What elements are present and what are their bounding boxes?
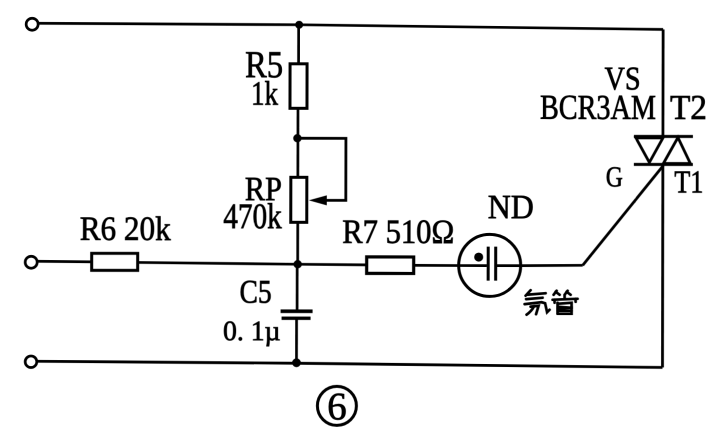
label neon tube chinese — [525, 290, 578, 315]
triac bottom bar — [634, 163, 693, 166]
wire R5 top lead — [297, 25, 300, 64]
capacitor C5 bottom plate — [282, 317, 311, 320]
resistor R5 — [290, 64, 307, 109]
node bottom junction — [292, 358, 301, 367]
svg-text:BCR3AM: BCR3AM — [540, 88, 656, 127]
wire RP feedback loop — [297, 138, 346, 200]
wire R7 to ND — [414, 264, 460, 267]
svg-text:ND: ND — [488, 189, 534, 226]
wire right vertical bottom (T1 lead) — [661, 164, 664, 367]
figure number circled 6 — [317, 386, 356, 425]
wire bottom — [37, 361, 662, 367]
ND dot electrode — [474, 253, 483, 262]
char guan — [554, 291, 557, 295]
svg-text:R6 20k: R6 20k — [80, 211, 171, 248]
svg-text:G: G — [606, 161, 623, 193]
triac right triangle — [663, 137, 690, 163]
wire top — [38, 23, 663, 29]
ND electrode right — [494, 247, 497, 281]
svg-text:T1: T1 — [674, 163, 703, 199]
node junction R5/RP loop — [293, 134, 301, 142]
node middle junction — [293, 260, 301, 268]
wire R6 to middle node — [138, 262, 298, 264]
wire RP to middle node — [296, 222, 299, 264]
char nai — [526, 290, 531, 296]
svg-text:R7 510Ω: R7 510Ω — [342, 214, 454, 251]
capacitor C5 top plate — [281, 309, 313, 313]
wire middle node to C5 — [296, 264, 299, 311]
terminal middle-left — [25, 256, 37, 268]
junction top node — [295, 21, 303, 29]
wire right vertical top (T2 lead) — [662, 29, 665, 135]
resistor R7 — [367, 257, 414, 274]
ND internal lead right — [497, 264, 522, 267]
svg-text:T2: T2 — [670, 88, 707, 127]
ND internal lead left — [458, 264, 487, 267]
svg-text:C5: C5 — [240, 275, 272, 311]
wire ND to gate corner — [522, 264, 583, 267]
svg-text:470k: 470k — [223, 196, 282, 236]
neon lamp ND circle — [459, 234, 521, 296]
potentiometer RP — [291, 177, 307, 222]
terminal top-left — [26, 18, 38, 30]
triac VS top bar — [634, 135, 693, 138]
resistor R6 — [92, 253, 138, 270]
wire middle left lead — [37, 260, 92, 263]
svg-text:6: 6 — [327, 385, 347, 428]
terminal bottom-left — [25, 356, 37, 368]
svg-text:1k: 1k — [251, 76, 278, 113]
wire gate diagonal — [583, 165, 664, 265]
svg-text:0. 1µ: 0. 1µ — [223, 316, 281, 347]
ND electrode left — [487, 247, 490, 281]
wire middle node to R7 — [298, 263, 367, 266]
wire C5 to bottom — [295, 318, 298, 363]
wire R5 to RP — [296, 108, 299, 177]
wiper arrow of RP — [309, 195, 327, 205]
triac left triangle — [636, 138, 663, 163]
